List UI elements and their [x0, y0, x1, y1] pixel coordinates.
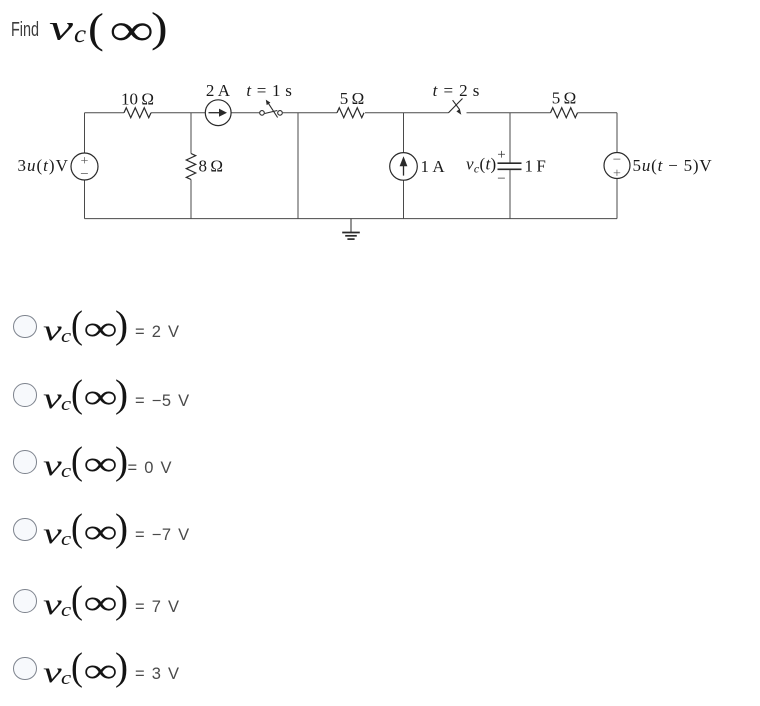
- svg-text:5u(t − 5)V: 5u(t − 5)V: [633, 156, 713, 175]
- switch S2 closing arrow: [453, 100, 460, 109]
- svg-text:t = 2 s: t = 2 s: [433, 81, 481, 100]
- wire 8ohm branch upper: [190, 113, 192, 154]
- svg-text:5 Ω: 5 Ω: [552, 89, 577, 108]
- resistor R3 5ohm: [337, 108, 364, 118]
- switch S1 contact right: [278, 111, 283, 116]
- svg-text:−: −: [80, 167, 88, 183]
- svg-text:8 Ω: 8 Ω: [199, 157, 224, 176]
- current source I2 arrow: [403, 163, 405, 176]
- wire 5ohm R3 to right edge: [578, 112, 618, 114]
- wire right vertical upper: [616, 113, 618, 153]
- wire top-left segment: [85, 112, 125, 114]
- switch S1 opening arrow: [267, 102, 277, 118]
- ground bar 1: [342, 232, 360, 234]
- current source I1 2A circle: [205, 100, 231, 126]
- title math v_c(infinity): [49, 6, 73, 48]
- wire right vertical lower: [616, 179, 618, 219]
- switch S1 blade: [265, 111, 278, 114]
- resistor R1 10ohm: [124, 108, 151, 118]
- svg-text:vc(t): vc(t): [466, 155, 496, 176]
- ground stem: [350, 219, 352, 233]
- circuit schematic: [0, 0, 760, 260]
- current source I1 arrow: [209, 112, 221, 114]
- svg-text:3u(t)V: 3u(t)V: [18, 156, 69, 175]
- ground bar 2: [345, 235, 357, 237]
- voltage source V2 5u(t-5) circle: [604, 153, 630, 179]
- svg-text:5 Ω: 5 Ω: [340, 89, 365, 108]
- wire 8ohm branch lower: [190, 180, 192, 219]
- wire switch S1 to node B: [283, 112, 337, 114]
- wire 1A branch lower: [403, 180, 405, 218]
- wire switch S2 to 5ohm R3: [467, 112, 551, 114]
- wire 1A branch upper: [403, 113, 405, 153]
- svg-text:+: +: [613, 167, 621, 182]
- capacitor C1 bottom plate: [498, 168, 522, 170]
- svg-text:−: −: [497, 171, 505, 187]
- svg-text:1 F: 1 F: [525, 157, 546, 176]
- capacitor C1 top plate: [498, 162, 522, 164]
- voltage source V1 3u(t) circle: [71, 153, 98, 180]
- current source I2 1A circle: [390, 153, 418, 181]
- resistor R2 8ohm: [186, 154, 195, 180]
- wire bottom rail: [85, 218, 618, 220]
- wire node B to switch S2: [365, 112, 449, 114]
- resistor R4 5ohm: [551, 108, 578, 118]
- svg-text:t = 1 s: t = 1 s: [246, 81, 292, 100]
- wire capacitor branch upper: [509, 113, 511, 163]
- wire capacitor branch lower: [509, 169, 511, 218]
- wire 2A source to switch S1: [231, 112, 259, 114]
- svg-text:+: +: [497, 147, 505, 163]
- svg-text:1 A: 1 A: [421, 157, 446, 176]
- wire middle vertical node B: [297, 113, 299, 219]
- wire left vertical lower: [84, 180, 86, 219]
- svg-text:2 A: 2 A: [206, 81, 231, 100]
- switch S2 blade: [449, 99, 463, 113]
- switch S1 contact left: [260, 111, 265, 116]
- ground bar 3: [347, 238, 354, 240]
- wire left vertical upper: [84, 113, 86, 153]
- svg-text:10 Ω: 10 Ω: [121, 90, 154, 109]
- wire 10ohm to 2A source: [151, 112, 205, 114]
